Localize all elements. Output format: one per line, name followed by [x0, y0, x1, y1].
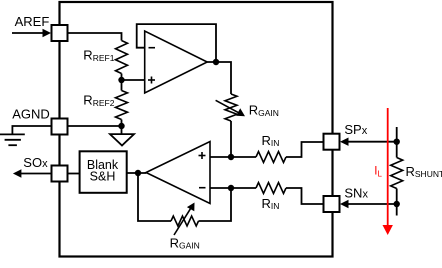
node U2 output [135, 170, 141, 176]
wire U2 minus input row [210, 187, 256, 189]
wire U2 plus input row [210, 156, 256, 158]
wire RREF2 to node [121, 120, 123, 127]
wire U1 output to RGAIN1 [207, 62, 231, 94]
ground triangle symbol [110, 134, 134, 145]
SOx output arrow [13, 169, 52, 177]
wire AREF pin to RREF1 [68, 33, 122, 41]
node SNx / RSHUNT bottom [394, 201, 400, 207]
RGAIN1 wiper arrow [216, 100, 245, 116]
resistor RIN top [256, 152, 286, 163]
svg-text:SPx: SPx [344, 122, 367, 137]
wire SOx pin to Blank box [68, 173, 80, 175]
svg-text:RGAIN: RGAIN [170, 235, 200, 250]
U1 plus sign [148, 77, 155, 84]
resistor RGAIN2 (variable) [171, 216, 199, 226]
wire RGAIN2 to minus node [199, 188, 232, 221]
svg-text:AGND: AGND [12, 107, 50, 122]
svg-text:S&H: S&H [90, 170, 116, 184]
wire node to ground triangle [121, 126, 123, 134]
op-amp U1 (top) [145, 31, 208, 93]
resistor RREF1 [116, 41, 128, 74]
arrow into SNx pin [340, 200, 397, 208]
node plus input [228, 154, 234, 160]
svg-text:AREF: AREF [15, 14, 50, 29]
U2 minus sign [199, 187, 206, 189]
wire U1 feedback loop [137, 24, 216, 62]
node RREF junction [118, 77, 124, 83]
resistor RGAIN1 (variable) [225, 94, 237, 121]
pin AGND [52, 119, 68, 135]
wire junction to op-amp U1 plus input [122, 79, 145, 81]
node SPx / RSHUNT top [394, 139, 400, 145]
wire RIN bottom to SNx pin [286, 188, 324, 204]
box Blank S&H [80, 151, 127, 193]
node AGND junction [118, 123, 124, 129]
wire RREF1 to RREF2 [121, 74, 123, 91]
pin SNx [324, 196, 340, 212]
wire AGND to left ground [12, 126, 51, 134]
RGAIN2 wiper arrow [174, 203, 195, 236]
node U1 output [213, 59, 219, 65]
svg-text:RIN: RIN [262, 196, 280, 211]
wire Blank box to U2 output [127, 172, 147, 174]
resistor RREF2 [116, 91, 128, 120]
pin SPx [324, 134, 340, 150]
IC outline box [60, 2, 333, 257]
node minus input [228, 185, 234, 191]
svg-text:SNx: SNx [344, 186, 368, 201]
pin AREF [52, 25, 68, 41]
wire RSHUNT bottom stub [396, 189, 398, 216]
resistor RSHUNT [391, 158, 403, 189]
wire RSHUNT top stub [396, 127, 398, 158]
svg-text:RREF2: RREF2 [83, 93, 114, 108]
U1 minus sign [149, 47, 156, 49]
svg-text:RSHUNT: RSHUNT [406, 164, 442, 179]
load current IL red arrow [383, 108, 393, 235]
op-amp U2 (bottom, pointing left) [146, 142, 210, 204]
svg-text:RGAIN: RGAIN [249, 103, 279, 118]
svg-text:RIN: RIN [262, 133, 280, 148]
svg-text:RREF1: RREF1 [83, 48, 114, 63]
wire RGAIN1 to plus node [230, 121, 232, 157]
svg-text:IL: IL [374, 165, 382, 178]
wire AGND pin to RREF2 bottom [68, 125, 122, 127]
ground (earth) symbol left [0, 134, 25, 145]
U2 plus sign [199, 152, 206, 159]
svg-text:SOx: SOx [23, 155, 48, 170]
pin SOx [52, 166, 68, 182]
arrow into SPx pin [340, 138, 397, 146]
wire RIN top to SPx pin [286, 142, 324, 157]
resistor RIN bottom [256, 183, 286, 194]
wire U2 feedback to RGAIN2 [138, 173, 171, 221]
AREF input arrow [12, 29, 51, 37]
